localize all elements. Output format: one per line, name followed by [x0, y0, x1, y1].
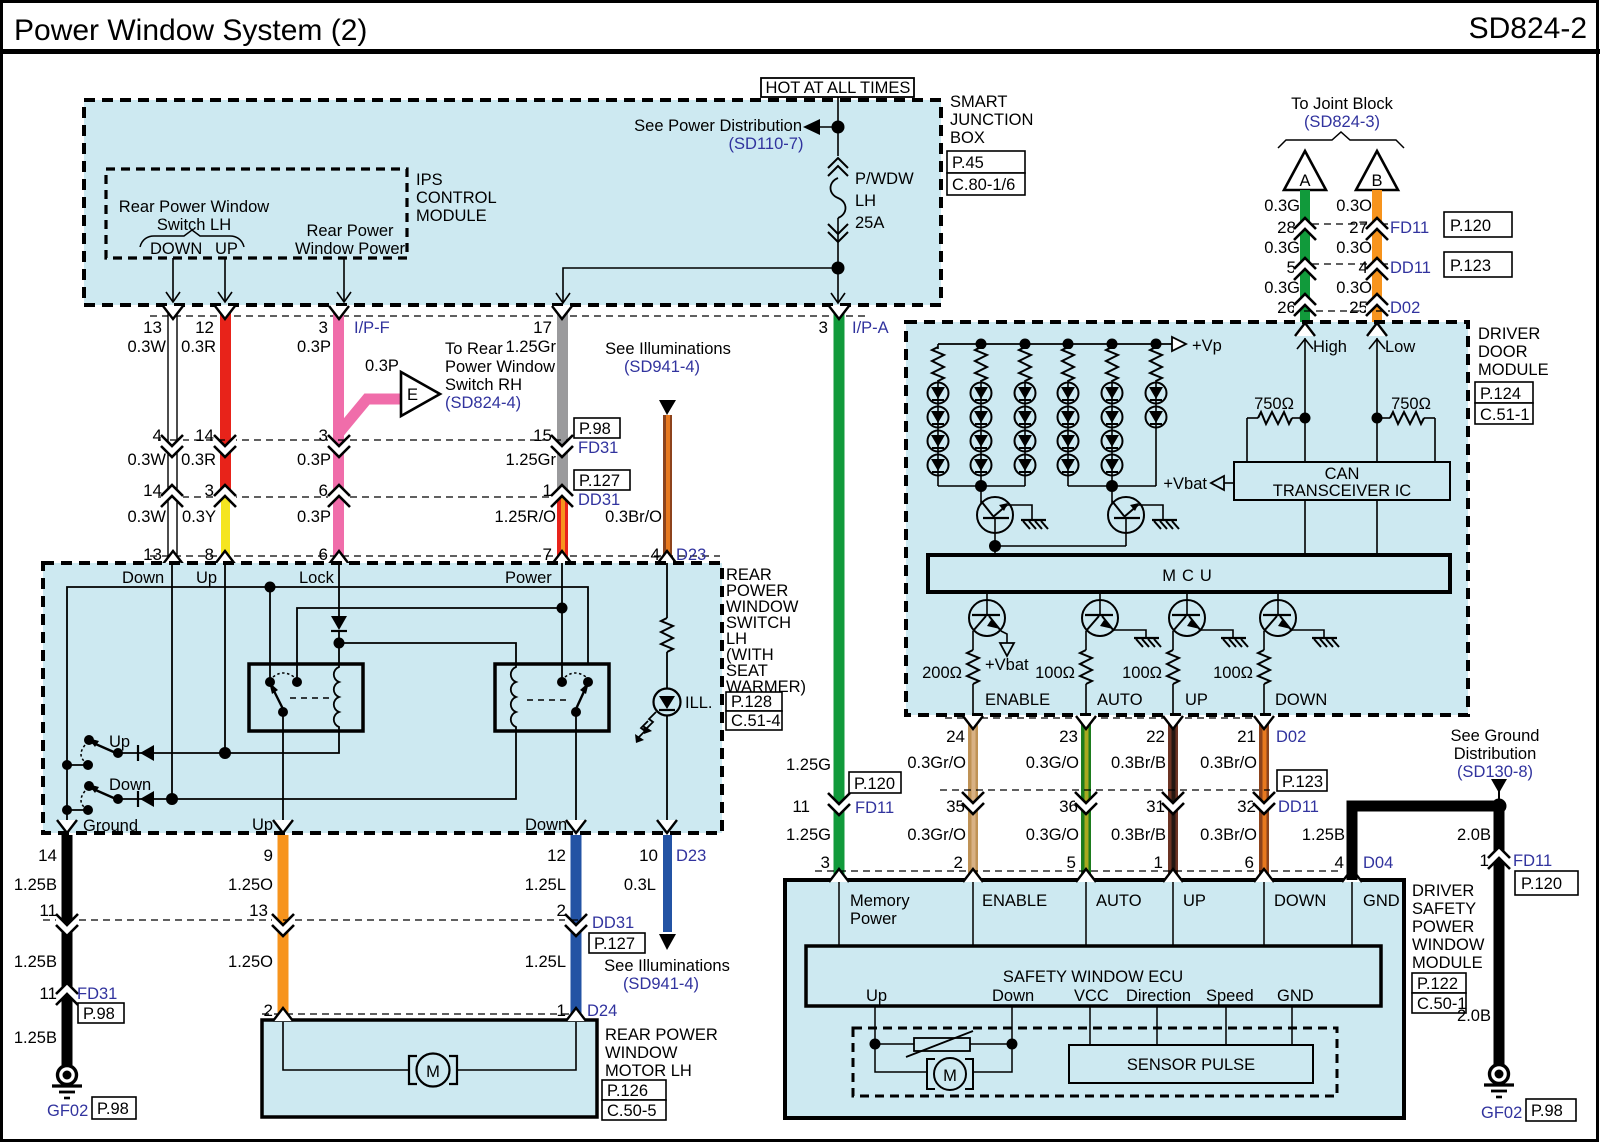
- resistor 100ohm UP: [1167, 650, 1179, 684]
- node Q1 out: [989, 540, 1001, 552]
- sensor pulse box: [1069, 1045, 1313, 1083]
- svg-text:CONTROL: CONTROL: [416, 189, 497, 207]
- entry arrow 1.25R/O switch: [552, 551, 572, 564]
- svg-text:MOTOR LH: MOTOR LH: [605, 1062, 692, 1080]
- svg-text:Direction: Direction: [1126, 987, 1191, 1005]
- connector row switch box dashed: [150, 555, 720, 557]
- svg-text:(SD824-3): (SD824-3): [1304, 113, 1380, 131]
- transistor Q3 ENABLE: [969, 592, 1007, 650]
- entry arrow up: [1163, 869, 1183, 882]
- exit arrow green at SJB: [829, 306, 849, 319]
- wire: fuse to lower junction: [837, 218, 839, 303]
- svg-text:11: 11: [792, 797, 810, 816]
- dotted arc right relay: [565, 673, 586, 677]
- svg-text:Rear Power: Rear Power: [306, 222, 394, 240]
- svg-text:P.120: P.120: [854, 775, 895, 793]
- wire 0.3Br/B up: [1168, 716, 1178, 880]
- wire 0.3Br/O down: [1259, 716, 1269, 880]
- svg-text:Window Power: Window Power: [295, 240, 406, 258]
- svg-text:SENSOR PULSE: SENSOR PULSE: [1127, 1056, 1255, 1074]
- entry arrow down: [1254, 869, 1274, 882]
- svg-text:P.127: P.127: [594, 935, 635, 953]
- svg-text:(SD941-4): (SD941-4): [624, 358, 700, 376]
- svg-text:Up: Up: [109, 733, 130, 751]
- see power distribution arrow: [803, 119, 820, 135]
- wire between nodes: [875, 1043, 1012, 1045]
- svg-text:P.98: P.98: [1531, 1102, 1563, 1120]
- connector chevron orange DD11: [1366, 258, 1388, 280]
- left relay contact fixed: [265, 677, 275, 687]
- svg-text:See Illuminations: See Illuminations: [604, 957, 730, 975]
- LED column 3: [1015, 344, 1036, 486]
- exit arrow down output: [566, 820, 586, 833]
- svg-text:UP: UP: [1183, 892, 1206, 910]
- svg-text:(SD941-4): (SD941-4): [623, 975, 699, 993]
- svg-text:27: 27: [1349, 218, 1368, 237]
- dotted arc left relay: [273, 673, 294, 677]
- svg-text:Memory: Memory: [850, 892, 910, 910]
- connector chevron FD11 right: [1488, 847, 1510, 869]
- connector chevron green FD11: [1294, 218, 1316, 240]
- connector row DD31 dashed: [43, 919, 586, 921]
- svg-text:P.122: P.122: [1417, 975, 1458, 993]
- svg-text:0.3Br/B: 0.3Br/B: [1111, 826, 1166, 844]
- wire: down entry: [171, 563, 173, 799]
- connector chevron orange D02: [1366, 294, 1388, 316]
- see illuminations triangle bottom: [659, 934, 676, 950]
- svg-text:0.3L: 0.3L: [624, 876, 656, 894]
- connector A triangle: [1284, 151, 1326, 190]
- coil right relay: [511, 664, 516, 731]
- diode down: [140, 791, 154, 807]
- svg-text:E: E: [407, 386, 418, 404]
- node bus col2: [976, 339, 987, 350]
- wire 0.3P pink branch to E: [338, 399, 401, 434]
- ILL branch wire: [666, 563, 668, 618]
- connector chevron black DD31: [56, 914, 78, 936]
- page ref P.98: [92, 1097, 136, 1119]
- svg-text:SD824-2: SD824-2: [1469, 12, 1587, 45]
- svg-text:MODULE: MODULE: [1412, 954, 1483, 972]
- connector row DD11 dashed: [940, 789, 1270, 791]
- LED column 5: [1102, 344, 1123, 486]
- node lock: [334, 638, 345, 649]
- wire 0.3Gr/O enable: [968, 716, 978, 880]
- connector chevron 0.3W DD31: [161, 485, 183, 507]
- connector chevron 1.25Gr FD31: [551, 435, 573, 457]
- ground Q2: [1152, 520, 1179, 529]
- wire 1.25R/O red: [557, 497, 568, 563]
- wire: power entry: [561, 563, 563, 682]
- motor wires: [283, 1022, 409, 1070]
- wire 0.3G/O auto: [1081, 716, 1091, 880]
- wire 0.3Br/O illumination: [663, 415, 672, 563]
- svg-text:12: 12: [195, 318, 214, 337]
- ILL lightning arrows: [645, 712, 656, 730]
- right relay pivot: [571, 707, 581, 717]
- relay box left: [249, 664, 363, 731]
- right relay contact fixed: [583, 677, 593, 687]
- svg-text:0.3Br/O: 0.3Br/O: [1200, 754, 1257, 772]
- svg-text:TRANSCEIVER IC: TRANSCEIVER IC: [1273, 482, 1412, 500]
- svg-text:DOWN: DOWN: [1275, 691, 1327, 709]
- svg-text:0.3Br/B: 0.3Br/B: [1111, 754, 1166, 772]
- node: fuse top junction: [832, 121, 845, 134]
- svg-text:Switch RH: Switch RH: [445, 376, 522, 394]
- svg-text:Speed: Speed: [1206, 987, 1254, 1005]
- driver door module box: [906, 322, 1468, 715]
- connector chevron orange DD31: [272, 914, 294, 936]
- internal wires to ECU: [838, 882, 840, 946]
- exit arrow 0.3P at SJB: [329, 306, 349, 319]
- driver safety power window module box: [785, 880, 1404, 1118]
- connector row module dashed: [815, 870, 1342, 872]
- exit arrow ground: [57, 820, 77, 833]
- LED matrix top bus: [938, 343, 1172, 345]
- page ref P.122 C.50-1: [1412, 973, 1466, 993]
- svg-text:FD31: FD31: [578, 439, 618, 457]
- svg-text:6: 6: [319, 481, 328, 500]
- connector chevron up DD11: [1162, 792, 1184, 814]
- svg-text:3: 3: [819, 318, 828, 337]
- entry arrow 0.3P switch: [329, 551, 349, 564]
- resistor 200ohm: [967, 650, 979, 684]
- connector chevron green FD11: [828, 793, 850, 815]
- svg-text:See Ground: See Ground: [1451, 727, 1540, 745]
- svg-text:15: 15: [533, 426, 552, 445]
- svg-text:24: 24: [946, 727, 965, 746]
- svg-text:5: 5: [1067, 853, 1076, 872]
- connector row I/P dashed below SJB: [150, 315, 868, 317]
- svg-text:GF02: GF02: [1481, 1104, 1522, 1122]
- svg-text:0.3Y: 0.3Y: [182, 508, 216, 526]
- arrowhead fuse drop: [831, 293, 845, 303]
- svg-text:2.0B: 2.0B: [1457, 826, 1491, 844]
- svg-text:0.3O: 0.3O: [1336, 279, 1372, 297]
- svg-text:6: 6: [1245, 853, 1254, 872]
- entry arrow High: [1295, 323, 1315, 336]
- wires CAN to MCU: [1304, 500, 1306, 555]
- wire: LED to D23 output: [666, 715, 668, 833]
- svg-text:Ground: Ground: [83, 817, 138, 835]
- ground symbol GF02 right: [1490, 1065, 1509, 1084]
- diode lock: [331, 616, 347, 630]
- svg-text:P.98: P.98: [97, 1100, 129, 1118]
- svg-text:3: 3: [821, 853, 830, 872]
- svg-text:1: 1: [1154, 853, 1163, 872]
- wire: right pivot to down output: [575, 712, 577, 833]
- motor M safety: [934, 1058, 966, 1090]
- svg-text:11: 11: [39, 901, 57, 920]
- svg-text:C.51-4: C.51-4: [731, 712, 781, 730]
- wire: right coil bottom to down line: [118, 731, 516, 799]
- MCU box: [928, 555, 1450, 592]
- svg-text:25A: 25A: [855, 214, 884, 232]
- fuse P/WDW LH 25A: [831, 178, 846, 218]
- svg-text:GND: GND: [1363, 892, 1400, 910]
- wire: left pivot to up output: [282, 712, 284, 833]
- connector chevron orange FD11: [1366, 218, 1388, 240]
- svg-text:DOWN: DOWN: [150, 240, 202, 258]
- svg-text:DOOR: DOOR: [1478, 343, 1528, 361]
- svg-text:GF02: GF02: [47, 1102, 88, 1120]
- LED bottom bus right: [1068, 485, 1156, 487]
- svg-text:SMART: SMART: [950, 93, 1007, 111]
- page ref P.123: [1277, 770, 1327, 791]
- svg-text:0.3Br/O: 0.3Br/O: [1200, 826, 1257, 844]
- entry arrow 0.3Br/O switch: [657, 551, 677, 564]
- ground symbol GF02: [58, 1066, 77, 1085]
- node: fuse bottom junction: [832, 262, 845, 275]
- svg-text:14: 14: [38, 846, 57, 865]
- page ref P.126 C.50-5: [602, 1080, 666, 1100]
- node motor left: [870, 1039, 881, 1050]
- svg-text:AUTO: AUTO: [1097, 691, 1143, 709]
- svg-text:13: 13: [249, 901, 268, 920]
- brace: [1278, 132, 1404, 148]
- ground Q1: [1021, 520, 1048, 529]
- wire node to MCU: [994, 546, 996, 555]
- wire: diode to node: [338, 631, 340, 664]
- svg-text:28: 28: [1277, 218, 1296, 237]
- resistor 100ohm DOWN: [1258, 650, 1270, 684]
- page ref P.127: [589, 933, 645, 953]
- coil left relay: [334, 664, 339, 731]
- connector row D02 dashed: [945, 717, 1270, 719]
- connector chevrons below fuse: [828, 224, 848, 234]
- svg-text:A: A: [1299, 172, 1310, 190]
- node bus col5: [1107, 339, 1118, 350]
- node Low resistor: [1372, 413, 1383, 424]
- svg-text:C.50-5: C.50-5: [607, 1102, 657, 1120]
- svg-text:DD11: DD11: [1390, 259, 1431, 277]
- svg-text:0.3W: 0.3W: [127, 451, 166, 469]
- LED ILL: [654, 689, 681, 716]
- svg-text:P.45: P.45: [952, 154, 984, 172]
- node bus T2: [1106, 480, 1118, 492]
- svg-text:13: 13: [143, 318, 162, 337]
- svg-text:25: 25: [1349, 298, 1368, 317]
- svg-text:750Ω: 750Ω: [1254, 395, 1294, 413]
- node down bus to left relay: [265, 582, 276, 593]
- wire High: [1304, 338, 1306, 462]
- svg-text:14: 14: [143, 481, 162, 500]
- svg-text:1: 1: [543, 481, 552, 500]
- svg-text:0.3G: 0.3G: [1264, 279, 1300, 297]
- svg-text:DD31: DD31: [592, 914, 634, 932]
- svg-text:BOX: BOX: [950, 129, 985, 147]
- LED column 1: [928, 344, 949, 486]
- svg-text:1.25B: 1.25B: [14, 876, 57, 894]
- svg-text:P/WDW: P/WDW: [855, 170, 914, 188]
- page ref P.98: [1526, 1099, 1576, 1121]
- svg-text:0.3O: 0.3O: [1336, 239, 1372, 257]
- svg-text:Distribution: Distribution: [1454, 745, 1537, 763]
- svg-text:Down: Down: [109, 776, 151, 794]
- +Vbat arrow CAN: [1211, 476, 1224, 490]
- entry arrow Low: [1367, 323, 1387, 336]
- wire 1.25B ground black: [62, 835, 73, 1065]
- svg-text:P.98: P.98: [83, 1005, 115, 1023]
- svg-text:750Ω: 750Ω: [1391, 395, 1431, 413]
- entry arrow orange motor: [273, 1008, 293, 1021]
- svg-text:P.128: P.128: [731, 693, 772, 711]
- svg-text:AUTO: AUTO: [1096, 892, 1142, 910]
- svg-text:0.3O: 0.3O: [1336, 197, 1372, 215]
- arrowhead gray drop: [556, 293, 570, 303]
- ground Q4: [1134, 638, 1161, 647]
- svg-text:1: 1: [557, 1001, 566, 1020]
- svg-text:26: 26: [1277, 298, 1296, 317]
- svg-text:HOT AT ALL TIMES: HOT AT ALL TIMES: [766, 79, 911, 97]
- connector row DD11 dashed: [1312, 263, 1388, 265]
- svg-text:Rear Power Window: Rear Power Window: [119, 198, 269, 216]
- node bus col4: [1063, 339, 1074, 350]
- svg-text:Down: Down: [525, 816, 567, 834]
- svg-text:1.25G: 1.25G: [786, 826, 831, 844]
- svg-text:DD31: DD31: [578, 491, 620, 509]
- page ref P.120: [849, 772, 901, 793]
- IPS control module box: [106, 169, 407, 258]
- wire: left coil bottom to up line: [118, 731, 339, 753]
- svg-text:M: M: [426, 1063, 440, 1081]
- entry arrow blue motor: [566, 1008, 586, 1021]
- right relay contact left: [557, 677, 567, 687]
- relay box right: [495, 664, 609, 731]
- svg-text:POWER: POWER: [1412, 918, 1474, 936]
- svg-text:1.25Gr: 1.25Gr: [506, 338, 557, 356]
- LED column 4: [1058, 344, 1079, 486]
- exit arrow 0.3W at SJB: [163, 306, 183, 319]
- wire: up entry: [224, 563, 226, 753]
- ground distribution triangle: [1491, 779, 1507, 793]
- resistor 750ohm left: [1247, 417, 1258, 419]
- svg-text:1.25L: 1.25L: [525, 953, 566, 971]
- motor wires: [875, 1044, 927, 1072]
- svg-text:21: 21: [1237, 727, 1256, 746]
- connector row DD31 dashed: [158, 496, 572, 498]
- svg-text:P.126: P.126: [607, 1082, 648, 1100]
- wire: UP output arrow: [224, 258, 226, 302]
- connector row motor dashed: [262, 1013, 582, 1015]
- svg-text:WINDOW: WINDOW: [1412, 936, 1485, 954]
- wire 0.3Y yellow: [221, 497, 230, 563]
- svg-text:DOWN: DOWN: [1274, 892, 1326, 910]
- resistor 750ohm right: [1377, 417, 1390, 419]
- svg-text:0.3R: 0.3R: [181, 338, 216, 356]
- svg-text:FD11: FD11: [1390, 219, 1429, 237]
- svg-text:FD11: FD11: [855, 799, 894, 817]
- connector row FD11 dashed: [1312, 223, 1388, 225]
- svg-text:Up: Up: [196, 569, 217, 587]
- svg-text:GND: GND: [1277, 987, 1314, 1005]
- smart junction box body: [84, 100, 941, 305]
- manual switch down: [84, 781, 94, 791]
- svg-text:UP: UP: [1185, 691, 1208, 709]
- svg-text:+Vp: +Vp: [1192, 337, 1222, 355]
- svg-text:0.3P: 0.3P: [365, 357, 399, 375]
- node up line: [219, 747, 231, 759]
- svg-text:0.3Gr/O: 0.3Gr/O: [907, 826, 966, 844]
- exit arrow 1.25Gr at SJB: [552, 306, 572, 319]
- svg-text:1.25Gr: 1.25Gr: [506, 451, 557, 469]
- wire Q2 to Q1 node: [995, 545, 1126, 547]
- connector B triangle: [1356, 151, 1398, 190]
- node bus T1: [975, 480, 987, 492]
- wire 0.3L ill blue: [663, 835, 672, 932]
- page ref P.128 C.51-4: [726, 692, 782, 711]
- svg-text:Down: Down: [992, 987, 1034, 1005]
- brace: [140, 230, 244, 247]
- svg-text:2: 2: [264, 1001, 273, 1020]
- connector row FD31 dashed: [158, 439, 572, 441]
- svg-text:(SD130-8): (SD130-8): [1457, 763, 1533, 781]
- entry arrow 0.3W switch: [163, 551, 183, 564]
- svg-text:Low: Low: [1385, 338, 1415, 356]
- rear power window switch LH box: [43, 563, 722, 833]
- svg-text:+Vbat: +Vbat: [985, 656, 1029, 674]
- entry arrow memory power: [829, 869, 849, 882]
- svg-text:100Ω: 100Ω: [1122, 664, 1162, 682]
- page ref P.124 C.51-1: [1475, 382, 1533, 403]
- svg-text:D23: D23: [676, 847, 706, 865]
- page ref P.98: [574, 418, 620, 438]
- svg-text:9: 9: [264, 846, 273, 865]
- wire: down bus to left relay contact: [269, 587, 271, 682]
- entry arrow enable: [963, 869, 983, 882]
- svg-text:SAFETY WINDOW ECU: SAFETY WINDOW ECU: [1003, 968, 1183, 986]
- svg-text:12: 12: [547, 846, 566, 865]
- svg-text:DRIVER: DRIVER: [1478, 325, 1540, 343]
- wire: DOWN output arrow: [172, 258, 174, 302]
- wire 1.25Gr gray: [557, 306, 568, 497]
- svg-text:10: 10: [639, 846, 658, 865]
- svg-text:P.123: P.123: [1450, 257, 1491, 275]
- svg-text:0.3Br/O: 0.3Br/O: [605, 508, 662, 526]
- svg-text:D24: D24: [587, 1002, 617, 1020]
- wire 2.0B vertical: [1494, 801, 1505, 1065]
- svg-text:P.124: P.124: [1480, 385, 1521, 403]
- title rule: [0, 49, 1600, 54]
- svg-text:LH: LH: [855, 192, 876, 210]
- ground Q6: [1312, 638, 1339, 647]
- connector chevron enable DD11: [962, 792, 984, 814]
- svg-text:11: 11: [39, 984, 57, 1003]
- HOT AT ALL TIMES label: [761, 78, 914, 97]
- svg-text:FD11: FD11: [1513, 852, 1552, 870]
- svg-text:DD11: DD11: [1278, 798, 1319, 816]
- page ref P.123: [1444, 252, 1512, 277]
- svg-text:C.80-1/6: C.80-1/6: [952, 176, 1015, 194]
- ECU output wires: [874, 1006, 876, 1044]
- resistor ILL: [661, 618, 673, 652]
- LED column 2: [971, 344, 992, 486]
- wire: junction to gray wire drop: [563, 268, 838, 303]
- node bus col3: [1020, 339, 1031, 350]
- svg-text:1.25L: 1.25L: [525, 876, 566, 894]
- exit arrow up: [1163, 716, 1183, 729]
- exit arrow enable: [963, 716, 983, 729]
- common ties: [62, 760, 72, 770]
- svg-text:1.25B: 1.25B: [14, 1029, 57, 1047]
- svg-text:Power Window: Power Window: [445, 358, 555, 376]
- svg-text:0.3Gr/O: 0.3Gr/O: [907, 754, 966, 772]
- svg-text:Lock: Lock: [299, 569, 335, 587]
- connector chevron 0.3R DD31: [214, 485, 236, 507]
- connector chevron 0.3W FD31: [161, 435, 183, 457]
- svg-text:Power Window System (2): Power Window System (2): [14, 14, 367, 47]
- svg-text:CAN: CAN: [1325, 465, 1360, 483]
